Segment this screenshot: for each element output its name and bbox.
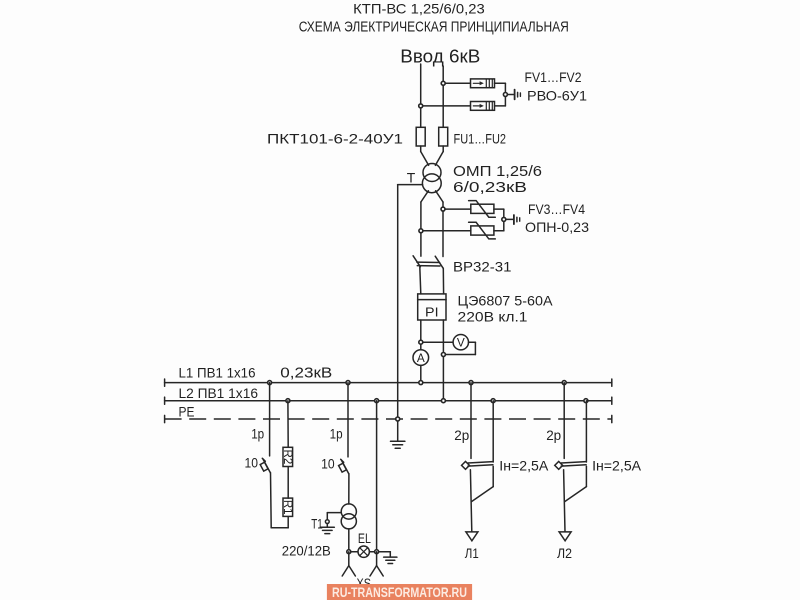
svg-text:V: V	[457, 335, 465, 349]
svg-text:Т1: Т1	[311, 515, 323, 531]
svg-text:2р: 2р	[546, 427, 561, 443]
svg-text:1р: 1р	[251, 426, 264, 442]
svg-text:1р: 1р	[330, 426, 343, 442]
svg-text:Ввод 6кВ: Ввод 6кВ	[400, 45, 480, 66]
svg-text:0,23кВ: 0,23кВ	[280, 365, 332, 381]
svg-text:ВР32-31: ВР32-31	[453, 259, 512, 275]
svg-text:EL: EL	[358, 530, 371, 546]
svg-text:L1 ПВ1 1x16: L1 ПВ1 1x16	[179, 364, 256, 380]
svg-text:A: A	[417, 351, 425, 365]
svg-text:КТП-ВС 1,25/6/0,23: КТП-ВС 1,25/6/0,23	[353, 1, 485, 17]
svg-text:10: 10	[321, 455, 335, 471]
svg-text:R2: R2	[281, 450, 293, 465]
svg-text:RU-TRANSFORMATOR.RU: RU-TRANSFORMATOR.RU	[332, 585, 467, 600]
svg-text:Т: Т	[407, 169, 416, 185]
svg-text:220В кл.1: 220В кл.1	[458, 309, 528, 325]
svg-text:220/12В: 220/12В	[282, 542, 331, 558]
svg-text:Л2: Л2	[557, 545, 572, 561]
svg-text:L2 ПВ1 1x16: L2 ПВ1 1x16	[179, 385, 259, 401]
svg-text:R1: R1	[281, 500, 293, 515]
svg-text:Iн=2,5А: Iн=2,5А	[592, 458, 642, 474]
svg-text:FV1…FV2: FV1…FV2	[525, 69, 582, 85]
svg-text:10: 10	[245, 455, 259, 471]
svg-text:PI: PI	[425, 304, 439, 319]
svg-text:ОМП 1,25/6: ОМП 1,25/6	[453, 164, 542, 180]
svg-text:РВО-6У1: РВО-6У1	[527, 88, 587, 104]
svg-text:СХЕМА ЭЛЕКТРИЧЕСКАЯ ПРИНЦИПИАЛ: СХЕМА ЭЛЕКТРИЧЕСКАЯ ПРИНЦИПИАЛЬНАЯ	[299, 19, 569, 36]
svg-text:РЕ: РЕ	[179, 404, 195, 420]
svg-text:FV3…FV4: FV3…FV4	[528, 201, 585, 217]
svg-text:ОПН-0,23: ОПН-0,23	[525, 219, 589, 235]
svg-text:6/0,23кВ: 6/0,23кВ	[453, 180, 527, 196]
svg-text:2р: 2р	[454, 427, 469, 443]
svg-text:Iн=2,5А: Iн=2,5А	[499, 458, 549, 474]
svg-text:ЦЭ6807 5-60А: ЦЭ6807 5-60А	[458, 293, 554, 309]
svg-text:FU1…FU2: FU1…FU2	[454, 130, 507, 146]
svg-text:ПКТ101-6-2-40У1: ПКТ101-6-2-40У1	[267, 130, 403, 146]
svg-text:Л1: Л1	[465, 545, 479, 561]
